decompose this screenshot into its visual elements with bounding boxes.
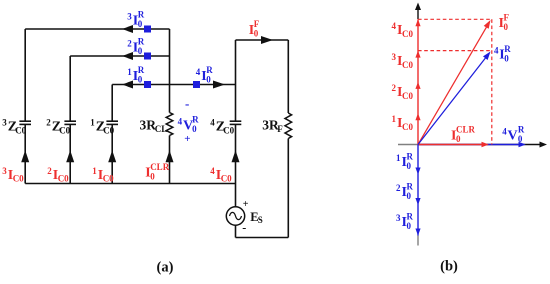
CT marker (blue square) on branch-3 wire	[144, 26, 151, 33]
CT marker (blue square) on branch-4 wire	[193, 81, 200, 88]
wire: bottom bus	[25, 183, 235, 185]
svg-text:C0: C0	[402, 122, 413, 132]
svg-text:3R: 3R	[140, 117, 157, 132]
capacitor 1ZC0 branch	[106, 85, 118, 184]
source ES circle with sine	[226, 207, 244, 225]
svg-text:C0: C0	[221, 174, 232, 184]
arrowhead up CLR current	[166, 150, 174, 162]
dashed line vertical at tips	[491, 19, 493, 144]
svg-text:C0: C0	[103, 125, 114, 135]
arrowhead left on branch-2 wire	[122, 52, 133, 60]
svg-text:0: 0	[254, 29, 259, 39]
label 1I0R (phasor)	[396, 151, 414, 170]
label 4I0R vector (phasor)	[494, 44, 511, 63]
svg-text:3: 3	[127, 11, 132, 21]
label 3IC0	[2, 166, 24, 184]
arrowhead up branch-2 current	[66, 150, 74, 162]
arrowhead blue down segment 1	[415, 168, 420, 175]
vector I0F (red diagonal)	[418, 20, 491, 145]
CT marker (blue square) on branch-1 wire	[144, 81, 151, 88]
svg-text:C0: C0	[402, 60, 413, 70]
svg-text:2: 2	[392, 83, 397, 93]
arrowhead red up segment 3	[415, 51, 420, 58]
svg-text:1: 1	[92, 166, 97, 176]
svg-text:0: 0	[150, 171, 155, 181]
svg-text:4: 4	[210, 166, 215, 176]
arrowhead right on branch-4 wire	[213, 81, 225, 89]
label 2I0R (phasor)	[396, 181, 414, 200]
svg-text:2: 2	[127, 38, 132, 48]
wire: fault current top wire	[236, 39, 289, 41]
svg-text:0: 0	[504, 53, 509, 63]
svg-text:+: +	[243, 199, 249, 210]
arrowhead blue down segment 2	[415, 198, 420, 205]
wire: source branch vertical	[235, 184, 237, 238]
vector 4V0R (blue along x-axis)	[418, 142, 526, 147]
label 3RCL	[140, 117, 168, 134]
svg-text:1: 1	[90, 118, 95, 128]
label (a)	[157, 260, 174, 276]
wire: branch-2 horizontal	[70, 55, 169, 57]
label 2IC0 (phasor)	[392, 83, 414, 101]
arrowhead up branch-4 current	[232, 150, 240, 162]
vector 4I0R (blue diagonal)	[418, 52, 491, 145]
svg-text:S: S	[258, 215, 263, 225]
svg-text:0: 0	[138, 46, 143, 56]
label 4V0R (phasor x-axis)	[502, 125, 525, 144]
label I0CLR (phasor x-axis)	[451, 125, 476, 144]
axis: horizontal V-axis with arrow	[418, 142, 547, 148]
axis: horizontal gray segment left of origin	[398, 144, 418, 146]
wire: bottom loop wire	[236, 237, 289, 239]
label 1IC0 (phasor)	[392, 114, 414, 132]
label 3I0R (branch-3 residual current)	[127, 10, 145, 29]
svg-text:3: 3	[392, 52, 397, 62]
capacitor 2ZC0 branch	[64, 56, 76, 184]
svg-text:C0: C0	[103, 174, 114, 184]
svg-text:-: -	[185, 96, 189, 111]
svg-text:0: 0	[518, 134, 523, 144]
label I0F (phasor)	[499, 12, 510, 31]
wire: branch-1 horizontal	[112, 84, 235, 86]
svg-text:0: 0	[407, 221, 412, 231]
svg-text:0: 0	[206, 75, 211, 85]
wire: vertical through resistor 3RF	[287, 40, 289, 238]
svg-text:C0: C0	[402, 91, 413, 101]
svg-text:0: 0	[138, 75, 143, 85]
svg-text:4: 4	[196, 67, 201, 77]
svg-text:0: 0	[138, 19, 143, 29]
arrowhead left on branch-1 wire	[122, 81, 133, 89]
label 4V0R voltage across 3RCL with polarity	[178, 96, 200, 145]
resistor 3RF zigzag	[285, 113, 292, 139]
svg-text:3: 3	[2, 118, 7, 128]
svg-text:C0: C0	[58, 174, 69, 184]
label 3IC0 (phasor)	[392, 52, 414, 70]
svg-text:(b): (b)	[440, 259, 458, 275]
vector chain: residual currents on -y axis	[417, 145, 419, 236]
label 1ZC0	[90, 118, 114, 136]
svg-text:C0: C0	[223, 125, 234, 135]
vector I0CLR (red along x-axis)	[418, 142, 489, 147]
label 1IC0	[92, 166, 114, 184]
wire: vertical through resistor 3RCL	[169, 29, 171, 184]
arrowhead left on branch-3 wire	[122, 25, 133, 33]
label (b)	[440, 259, 458, 275]
svg-text:2: 2	[46, 118, 51, 128]
svg-text:0: 0	[407, 191, 412, 201]
svg-text:0: 0	[192, 124, 197, 134]
svg-text:-: -	[242, 221, 246, 235]
resistor 3RCL zigzag	[166, 113, 173, 136]
dashed line horizontal at 4I0R tip	[418, 50, 492, 52]
label 1I0R (branch-1 residual current)	[127, 65, 145, 84]
svg-text:4: 4	[392, 21, 397, 31]
svg-text:4: 4	[178, 116, 183, 126]
vector chain: capacitive currents on +y axis	[417, 19, 419, 144]
svg-text:C0: C0	[59, 125, 70, 135]
svg-text:1: 1	[396, 153, 401, 163]
svg-text:2: 2	[396, 183, 401, 193]
svg-text:(a): (a)	[157, 260, 174, 276]
svg-text:0: 0	[407, 161, 412, 171]
capacitor 3ZC0 branch	[19, 29, 31, 184]
svg-text:1: 1	[392, 114, 397, 124]
svg-text:C0: C0	[15, 125, 26, 135]
svg-text:4: 4	[210, 118, 215, 128]
svg-text:3: 3	[2, 166, 7, 176]
label 2IC0	[47, 166, 69, 184]
wire: vertical through capacitor 4ZC0	[230, 40, 242, 184]
label I0F (fault current)	[249, 19, 260, 38]
svg-text:1: 1	[127, 67, 132, 77]
label 2I0R (branch-2 residual current)	[127, 37, 145, 56]
svg-text:F: F	[277, 124, 283, 134]
svg-text:0: 0	[456, 134, 461, 144]
svg-text:CL: CL	[155, 124, 168, 134]
arrowhead up branch-1 current	[108, 150, 116, 162]
wire: branch-3 zero-seq current path (top horizontal)	[25, 28, 169, 30]
svg-text:+: +	[184, 133, 190, 145]
arrowhead right on fault wire	[261, 36, 273, 44]
arrowhead blue down segment 3	[415, 229, 420, 236]
dashed line horizontal at I0F tip	[418, 18, 492, 20]
label 4ZC0	[210, 118, 234, 136]
svg-text:C0: C0	[13, 174, 24, 184]
label 4I0R (branch-4 residual current)	[196, 65, 214, 84]
label 3ZC0	[2, 118, 26, 136]
arrowhead red up segment 4	[415, 19, 420, 26]
arrowhead up branch-3 current	[21, 150, 29, 162]
label 2ZC0	[46, 118, 70, 136]
label I0CLR	[145, 162, 170, 181]
svg-text:2: 2	[47, 166, 52, 176]
label ES	[250, 210, 263, 225]
axis: vertical top black arrow	[415, 3, 421, 20]
svg-text:0: 0	[504, 22, 509, 32]
label 4IC0	[210, 166, 232, 184]
source minus sign	[242, 221, 246, 235]
arrowhead red up segment 2	[415, 82, 420, 89]
label 3RF	[262, 117, 283, 134]
arrowhead red up segment 1	[415, 113, 420, 120]
svg-text:3: 3	[396, 213, 401, 223]
label 4IC0 (phasor)	[392, 21, 414, 39]
source plus sign	[243, 199, 249, 210]
svg-text:C0: C0	[402, 29, 413, 39]
label 3I0R (phasor)	[396, 211, 414, 230]
CT marker (blue square) on branch-2 wire	[144, 53, 151, 60]
axis: vertical gray tail below	[417, 236, 419, 246]
svg-text:V: V	[508, 128, 518, 143]
